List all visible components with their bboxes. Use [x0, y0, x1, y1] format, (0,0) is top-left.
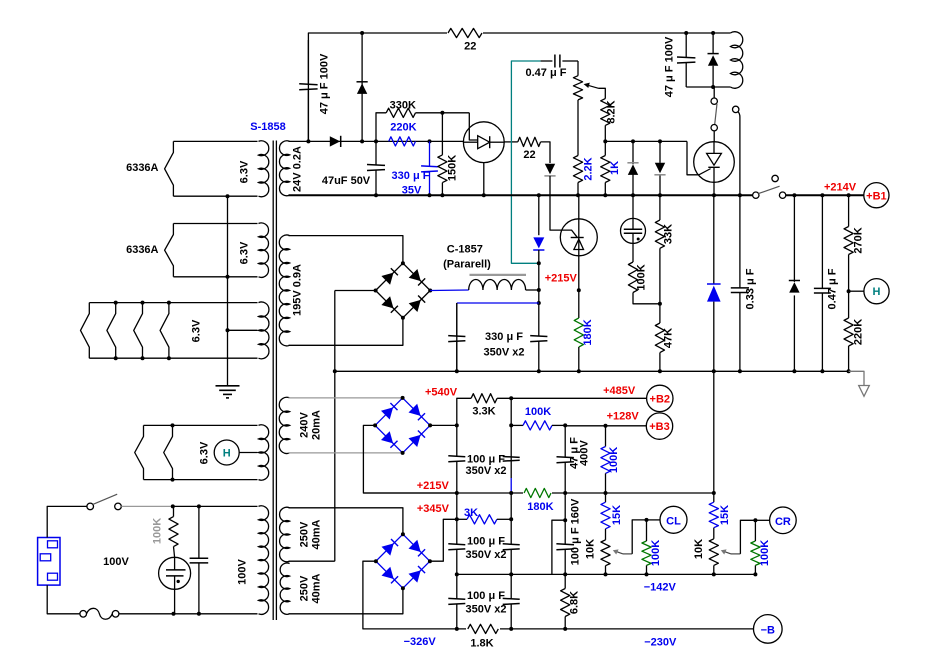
- capacitor 100uF row1 left: [456, 425, 458, 456]
- svg-text:22: 22: [464, 41, 476, 53]
- terminal CL: [647, 519, 661, 521]
- resistor 22 (top): [447, 26, 483, 40]
- wire diode to V1 gate: [550, 176, 577, 237]
- svg-text:0.33 μ F: 0.33 μ F: [745, 268, 757, 309]
- wire 195V top to bridge: [289, 236, 403, 264]
- svg-text:220K: 220K: [853, 319, 865, 345]
- junction: [820, 369, 824, 373]
- svg-text:350V x2: 350V x2: [484, 347, 525, 359]
- svg-text:1.8K: 1.8K: [470, 638, 493, 650]
- svg-text:−B: −B: [761, 624, 775, 636]
- svg-text:+128V: +128V: [607, 410, 640, 422]
- junction: [792, 369, 796, 373]
- junction: [658, 302, 662, 306]
- svg-text:S-1858: S-1858: [250, 121, 285, 133]
- svg-text:10K: 10K: [585, 539, 597, 559]
- junction: [509, 396, 513, 400]
- wire 22 to diode: [541, 142, 550, 163]
- resistor 270K: [848, 195, 850, 226]
- svg-text:350V x2: 350V x2: [466, 465, 507, 477]
- svg-text:100K: 100K: [636, 264, 648, 290]
- junction center-tap w1: [226, 194, 230, 198]
- svg-text:8.2K: 8.2K: [606, 100, 618, 123]
- junction: [847, 193, 851, 197]
- diode (series in 24V rail): [330, 136, 340, 146]
- wire D3 minus to -326V: [363, 561, 455, 629]
- heater h3d: [160, 303, 169, 359]
- svg-text:100K: 100K: [525, 406, 551, 418]
- potentiometer (voltage adj): [577, 61, 579, 76]
- resistor 1.8K (white mask): [466, 622, 500, 635]
- svg-text:40mA: 40mA: [310, 573, 322, 603]
- winding 6.3V (top) to 6336A: [173, 140, 257, 142]
- wire 240V top (gray): [289, 397, 403, 399]
- junction: [197, 612, 201, 616]
- thyristor U1 (error amp): [463, 122, 504, 163]
- resistor 220K (blue): [389, 137, 416, 146]
- junction: [360, 139, 364, 143]
- junction: [197, 504, 201, 508]
- winding 6.3V (third, four heaters): [89, 302, 257, 304]
- heater of 6336A #1: [165, 141, 174, 196]
- svg-text:+215V: +215V: [417, 480, 450, 492]
- potentiometer 10K (CL): [605, 529, 607, 540]
- svg-text:1K: 1K: [609, 161, 621, 175]
- svg-text:350V x2: 350V x2: [466, 604, 507, 616]
- resistor 100K (under V2): [628, 262, 637, 293]
- svg-text:+B2: +B2: [650, 393, 671, 405]
- junction: [360, 31, 364, 35]
- svg-text:100V: 100V: [103, 556, 129, 568]
- junction: [792, 193, 796, 197]
- svg-text:6.3V: 6.3V: [238, 160, 250, 183]
- junction: [658, 369, 662, 373]
- pot wiper arrow: [599, 88, 606, 98]
- choke C-1857: [470, 274, 527, 276]
- heater common wire to ground: [227, 196, 229, 386]
- junction: [171, 504, 175, 508]
- capacitor 47uF 100V (relay): [685, 33, 687, 58]
- svg-text:100K: 100K: [759, 540, 771, 566]
- wire +540V row: [457, 398, 471, 425]
- svg-text:3K: 3K: [464, 507, 478, 519]
- svg-text:250V: 250V: [299, 521, 311, 547]
- wire +B3: [565, 425, 646, 427]
- junction: [563, 423, 567, 427]
- wire D3 plus to +345V: [430, 519, 457, 561]
- junction: [658, 139, 662, 143]
- heater h4a: [135, 425, 144, 479]
- thyristor U2 (crowbar): [694, 142, 735, 183]
- junction: [537, 193, 541, 197]
- capacitor 330uF #1 plates: [456, 303, 458, 336]
- wire fuse to primary bottom: [119, 613, 258, 615]
- diode (relay clamp): [712, 33, 714, 54]
- junction: [374, 193, 378, 197]
- capacitor 100uF row2 left: [456, 493, 458, 545]
- svg-text:15K: 15K: [611, 505, 623, 525]
- svg-text:20mA: 20mA: [310, 410, 322, 440]
- svg-text:+214V: +214V: [824, 182, 857, 194]
- wire D2 plus to +540V: [430, 424, 457, 426]
- terminal CR: [755, 519, 769, 521]
- power transformer S-1858 core: [272, 141, 274, 621]
- wire plug bottom: [47, 585, 80, 614]
- junction: [172, 612, 176, 616]
- svg-text:CL: CL: [666, 515, 681, 527]
- junction: [374, 139, 378, 143]
- svg-text:100 μ F: 100 μ F: [467, 454, 505, 466]
- winding 24V 0.2A: [279, 141, 289, 196]
- resistor 330K: [376, 113, 386, 142]
- wire -326V / -230V rail: [455, 628, 754, 630]
- svg-text:195V 0.9A: 195V 0.9A: [292, 264, 304, 316]
- svg-text:350V x2: 350V x2: [466, 549, 507, 561]
- junction: [563, 572, 567, 576]
- relay fixed contact: [733, 106, 739, 112]
- capacitor 0.47uF (feedback): [541, 60, 553, 62]
- junction center-tap w2: [226, 275, 230, 279]
- junction: [820, 193, 824, 197]
- junction: [428, 193, 432, 197]
- heater h3b: [107, 303, 116, 359]
- svg-text:24V 0.2A: 24V 0.2A: [292, 146, 304, 192]
- junction: [645, 518, 649, 522]
- junction: [537, 288, 541, 292]
- wire switch to primary (gray): [121, 505, 173, 507]
- pot CR wiper: [731, 553, 740, 555]
- svg-text:+B1: +B1: [866, 191, 887, 203]
- junction: [537, 301, 541, 305]
- svg-text:6.3V: 6.3V: [199, 441, 211, 464]
- junction: [645, 572, 649, 576]
- svg-text:150K: 150K: [447, 155, 459, 181]
- svg-text:10K: 10K: [693, 539, 705, 559]
- terminal +B3: [646, 413, 672, 439]
- junction: [712, 572, 716, 576]
- wire CL network: [632, 520, 646, 554]
- terminal H (heater tap): [214, 440, 239, 465]
- junction: [440, 111, 444, 115]
- junction: [509, 627, 513, 631]
- svg-text:47 μ F 100V: 47 μ F 100V: [319, 53, 331, 114]
- junction: [847, 369, 851, 373]
- potentiometer 10K (CR): [713, 528, 715, 539]
- svg-text:180K: 180K: [582, 319, 594, 345]
- svg-text:47uF 50V: 47uF 50V: [322, 175, 371, 187]
- svg-text:180K: 180K: [527, 501, 553, 513]
- svg-text:0.47 μ F: 0.47 μ F: [827, 268, 839, 309]
- pot CL wiper: [623, 553, 632, 555]
- capacitor 100uF row1 right plates: [503, 456, 520, 459]
- heater h3c: [134, 303, 143, 359]
- winding 6.3V (H heater): [144, 424, 258, 426]
- wire bridge plus (blue): [430, 289, 469, 292]
- junction: [631, 139, 635, 143]
- junction dots winding4: [171, 423, 175, 427]
- junction: [738, 193, 742, 197]
- wire U1 out: [504, 141, 518, 143]
- junction: [847, 289, 851, 293]
- capacitor 100uF row2 mid: [510, 519, 512, 544]
- svg-text:15K: 15K: [719, 505, 731, 525]
- resistor 100K blue vertical: [605, 426, 607, 447]
- chassis ground arrow: [849, 371, 864, 385]
- svg-text:H: H: [223, 448, 231, 460]
- wire U1 cathode to rail: [483, 163, 485, 196]
- wire -142V rail: [457, 573, 756, 575]
- diode (up, gray bar): [632, 141, 634, 164]
- svg-text:270K: 270K: [853, 227, 865, 253]
- junction: [563, 627, 567, 631]
- wire 195V bottom to bridge: [289, 318, 403, 346]
- gas tube V2 (reference): [632, 195, 634, 229]
- svg-text:3.3K: 3.3K: [472, 406, 495, 418]
- winding 250V 40mA #1: [280, 507, 290, 562]
- wire plug top: [47, 506, 87, 537]
- bridge rectifier D3 (250V): [376, 534, 430, 588]
- winding 240V 20mA: [279, 397, 289, 453]
- relay coil: [730, 32, 742, 89]
- junction: [455, 369, 459, 373]
- svg-text:−230V: −230V: [644, 637, 677, 649]
- resistor 180K green (bleeder): [578, 290, 580, 318]
- junction: [604, 491, 608, 495]
- junction: [455, 423, 459, 427]
- junction: [306, 139, 310, 143]
- main B+ rail (+214V): [289, 194, 753, 196]
- wire D2 minus to +215V: [363, 425, 456, 493]
- diode (down, gray bar): [659, 141, 661, 163]
- resistor 220K (output): [848, 291, 850, 318]
- svg-text:22: 22: [523, 149, 535, 161]
- terminal -B: [754, 615, 783, 644]
- svg-text:100V: 100V: [237, 558, 249, 584]
- junction: [509, 491, 513, 495]
- wire 250V-1 top: [289, 508, 403, 534]
- diode (24V rail to top rail): [361, 33, 363, 141]
- resistor 100K green (CR): [751, 541, 760, 565]
- output switch on B+ rail: [753, 192, 759, 198]
- wire bridge minus: [335, 290, 376, 292]
- junction: [577, 288, 581, 292]
- resistor 47K: [659, 304, 661, 323]
- junction: [509, 572, 513, 576]
- svg-text:100 μ F 160V: 100 μ F 160V: [570, 498, 582, 565]
- junction: [712, 193, 716, 197]
- junction: [604, 424, 608, 428]
- wire +215V row (lower): [363, 492, 713, 494]
- wire to ground rail: [713, 371, 715, 493]
- resistor 15K blue (CR): [713, 493, 715, 502]
- resistor 15K blue (CL): [605, 493, 607, 502]
- winding 250V 40mA #2: [280, 563, 289, 614]
- gas tube V1 (shunt regulator): [578, 195, 580, 290]
- resistor 150K: [441, 113, 443, 155]
- winding 195V 0.9A: [279, 235, 289, 346]
- junction: [455, 491, 459, 495]
- junction: [482, 193, 486, 197]
- svg-text:+B3: +B3: [649, 421, 670, 433]
- resistor 6.8K: [564, 574, 566, 588]
- svg-text:6.3V: 6.3V: [238, 241, 250, 264]
- relay contact switch: [713, 87, 715, 98]
- ground rail (0V common): [335, 370, 849, 372]
- wire U2 cathode: [713, 182, 715, 195]
- capacitor 0.33uF: [739, 195, 741, 288]
- winding 6.3V (second) to 6336A: [173, 223, 257, 225]
- svg-text:220K: 220K: [390, 121, 416, 133]
- wire gate row: [605, 140, 687, 142]
- wire cap positive jog: [552, 520, 565, 574]
- junction: [509, 423, 513, 427]
- junction: [711, 31, 715, 35]
- svg-text:100K: 100K: [608, 447, 620, 473]
- wire +215V link (blue): [457, 302, 539, 304]
- terminal H (output): [849, 290, 864, 292]
- capacitor 47uF 400V: [564, 426, 566, 458]
- junction: [712, 491, 716, 495]
- neon lamp: [159, 557, 191, 589]
- svg-text:C-1857: C-1857: [447, 244, 483, 256]
- svg-text:−142V: −142V: [644, 582, 677, 594]
- svg-text:33K: 33K: [663, 224, 675, 244]
- wire 240V bottom (gray): [289, 452, 403, 454]
- wire top 22-ohm rail: [308, 33, 730, 141]
- junction: [563, 491, 567, 495]
- svg-text:+345V: +345V: [417, 503, 450, 515]
- junction: [684, 31, 688, 35]
- junction: [712, 369, 716, 373]
- diode (trigger, down): [545, 164, 555, 175]
- bridge rectifier D2 (240V): [375, 398, 430, 453]
- svg-text:330K: 330K: [390, 99, 416, 111]
- svg-text:100K: 100K: [152, 518, 164, 544]
- terminal +B2: [647, 385, 673, 411]
- resistor 180K green (white mask): [523, 487, 552, 499]
- capacitor 330uF #2: [538, 303, 540, 336]
- svg-text:6.3V: 6.3V: [191, 319, 203, 342]
- junction: [576, 193, 580, 197]
- svg-text:6336A: 6336A: [126, 162, 158, 174]
- svg-text:100 μ F: 100 μ F: [467, 536, 505, 548]
- heater h3a: [81, 303, 90, 359]
- svg-text:0.47 μ F: 0.47 μ F: [526, 67, 567, 79]
- resistor 22 (mid): [518, 137, 541, 146]
- capacitor 100uF row3 mid: [510, 574, 512, 599]
- svg-text:100K: 100K: [650, 540, 662, 566]
- svg-text:6.8K: 6.8K: [569, 591, 581, 614]
- capacitor 330uF 35V (blue): [429, 141, 431, 166]
- junction: [577, 369, 581, 373]
- capacitor 0.47uF (output): [821, 195, 823, 288]
- wire relay bottom: [686, 86, 730, 88]
- wire to primary top: [173, 505, 258, 507]
- resistor 100K blue (B2-B3): [511, 424, 523, 426]
- junction dots winding3: [114, 301, 118, 305]
- wire teal feedback: [511, 61, 540, 263]
- diode (snubber right): [793, 195, 795, 282]
- resistor 100K green (CL): [642, 541, 651, 565]
- svg-text:6336A: 6336A: [126, 244, 158, 256]
- svg-text:−326V: −326V: [404, 636, 437, 648]
- junction: [753, 518, 757, 522]
- junction: [563, 518, 567, 522]
- wire 24V top rail: [289, 140, 464, 142]
- resistor 2.2K: [573, 156, 582, 183]
- wire CR network: [740, 520, 755, 554]
- junction: [711, 85, 715, 89]
- junction: [509, 517, 513, 521]
- svg-text:CR: CR: [775, 516, 791, 528]
- resistor 33K: [659, 195, 661, 220]
- junction: [455, 517, 459, 521]
- svg-text:+215V: +215V: [545, 273, 578, 285]
- wire 250V midpoint to ground rail: [289, 560, 335, 562]
- heater of 6336A #2: [165, 224, 174, 277]
- svg-text:+540V: +540V: [425, 386, 458, 398]
- junction: [738, 369, 742, 373]
- junction: [455, 627, 459, 631]
- junction: [604, 572, 608, 576]
- junction: [440, 193, 444, 197]
- AC plug 100V: [38, 538, 60, 586]
- diode blue (choke to rail): [538, 195, 540, 235]
- svg-text:2.2K: 2.2K: [583, 157, 595, 180]
- junction: [603, 139, 607, 143]
- capacitor across line: [198, 506, 200, 558]
- ground: [216, 385, 240, 387]
- junction: [537, 261, 541, 265]
- capacitor 330uF #1: [456, 303, 458, 371]
- bridge rectifier D1 (195V): [376, 263, 431, 318]
- svg-text:240V: 240V: [299, 411, 311, 437]
- resistor 100K (input bleeder): [173, 506, 175, 516]
- svg-text:40mA: 40mA: [310, 519, 322, 549]
- junction: [455, 572, 459, 576]
- power switch: [87, 503, 94, 510]
- vertical +485 feed: [510, 398, 512, 425]
- resistor 8.2K: [601, 99, 610, 126]
- resistor 3.3K: [471, 394, 497, 403]
- fuse: [80, 611, 87, 618]
- resistor 1K: [601, 156, 610, 183]
- wire 250V-2 bottom: [289, 588, 403, 614]
- svg-text:(Pararell): (Pararell): [443, 259, 491, 271]
- heater h4b: [164, 425, 173, 479]
- capacitor 100uF 160V: [564, 493, 566, 545]
- capacitor 47uF 100V (left): [307, 40, 309, 85]
- junction: [537, 369, 541, 373]
- svg-text:47K: 47K: [663, 328, 675, 348]
- svg-text:+485V: +485V: [603, 385, 636, 397]
- terminal +B1: [864, 183, 889, 208]
- svg-text:H: H: [873, 286, 881, 298]
- diode blue (rail to ground): [713, 195, 715, 284]
- svg-text:330 μ F: 330 μ F: [392, 170, 430, 182]
- capacitor 47uF 50V: [375, 141, 377, 165]
- svg-text:400V: 400V: [579, 439, 591, 465]
- junction: [658, 193, 662, 197]
- junction: [603, 193, 607, 197]
- primary winding 100V: [259, 506, 269, 615]
- junction: [753, 572, 757, 576]
- svg-text:47 μ F 100V: 47 μ F 100V: [664, 36, 676, 97]
- svg-text:330 μ F: 330 μ F: [485, 331, 523, 343]
- junction: [428, 139, 432, 143]
- svg-text:250V: 250V: [299, 575, 311, 601]
- junction: [631, 193, 635, 197]
